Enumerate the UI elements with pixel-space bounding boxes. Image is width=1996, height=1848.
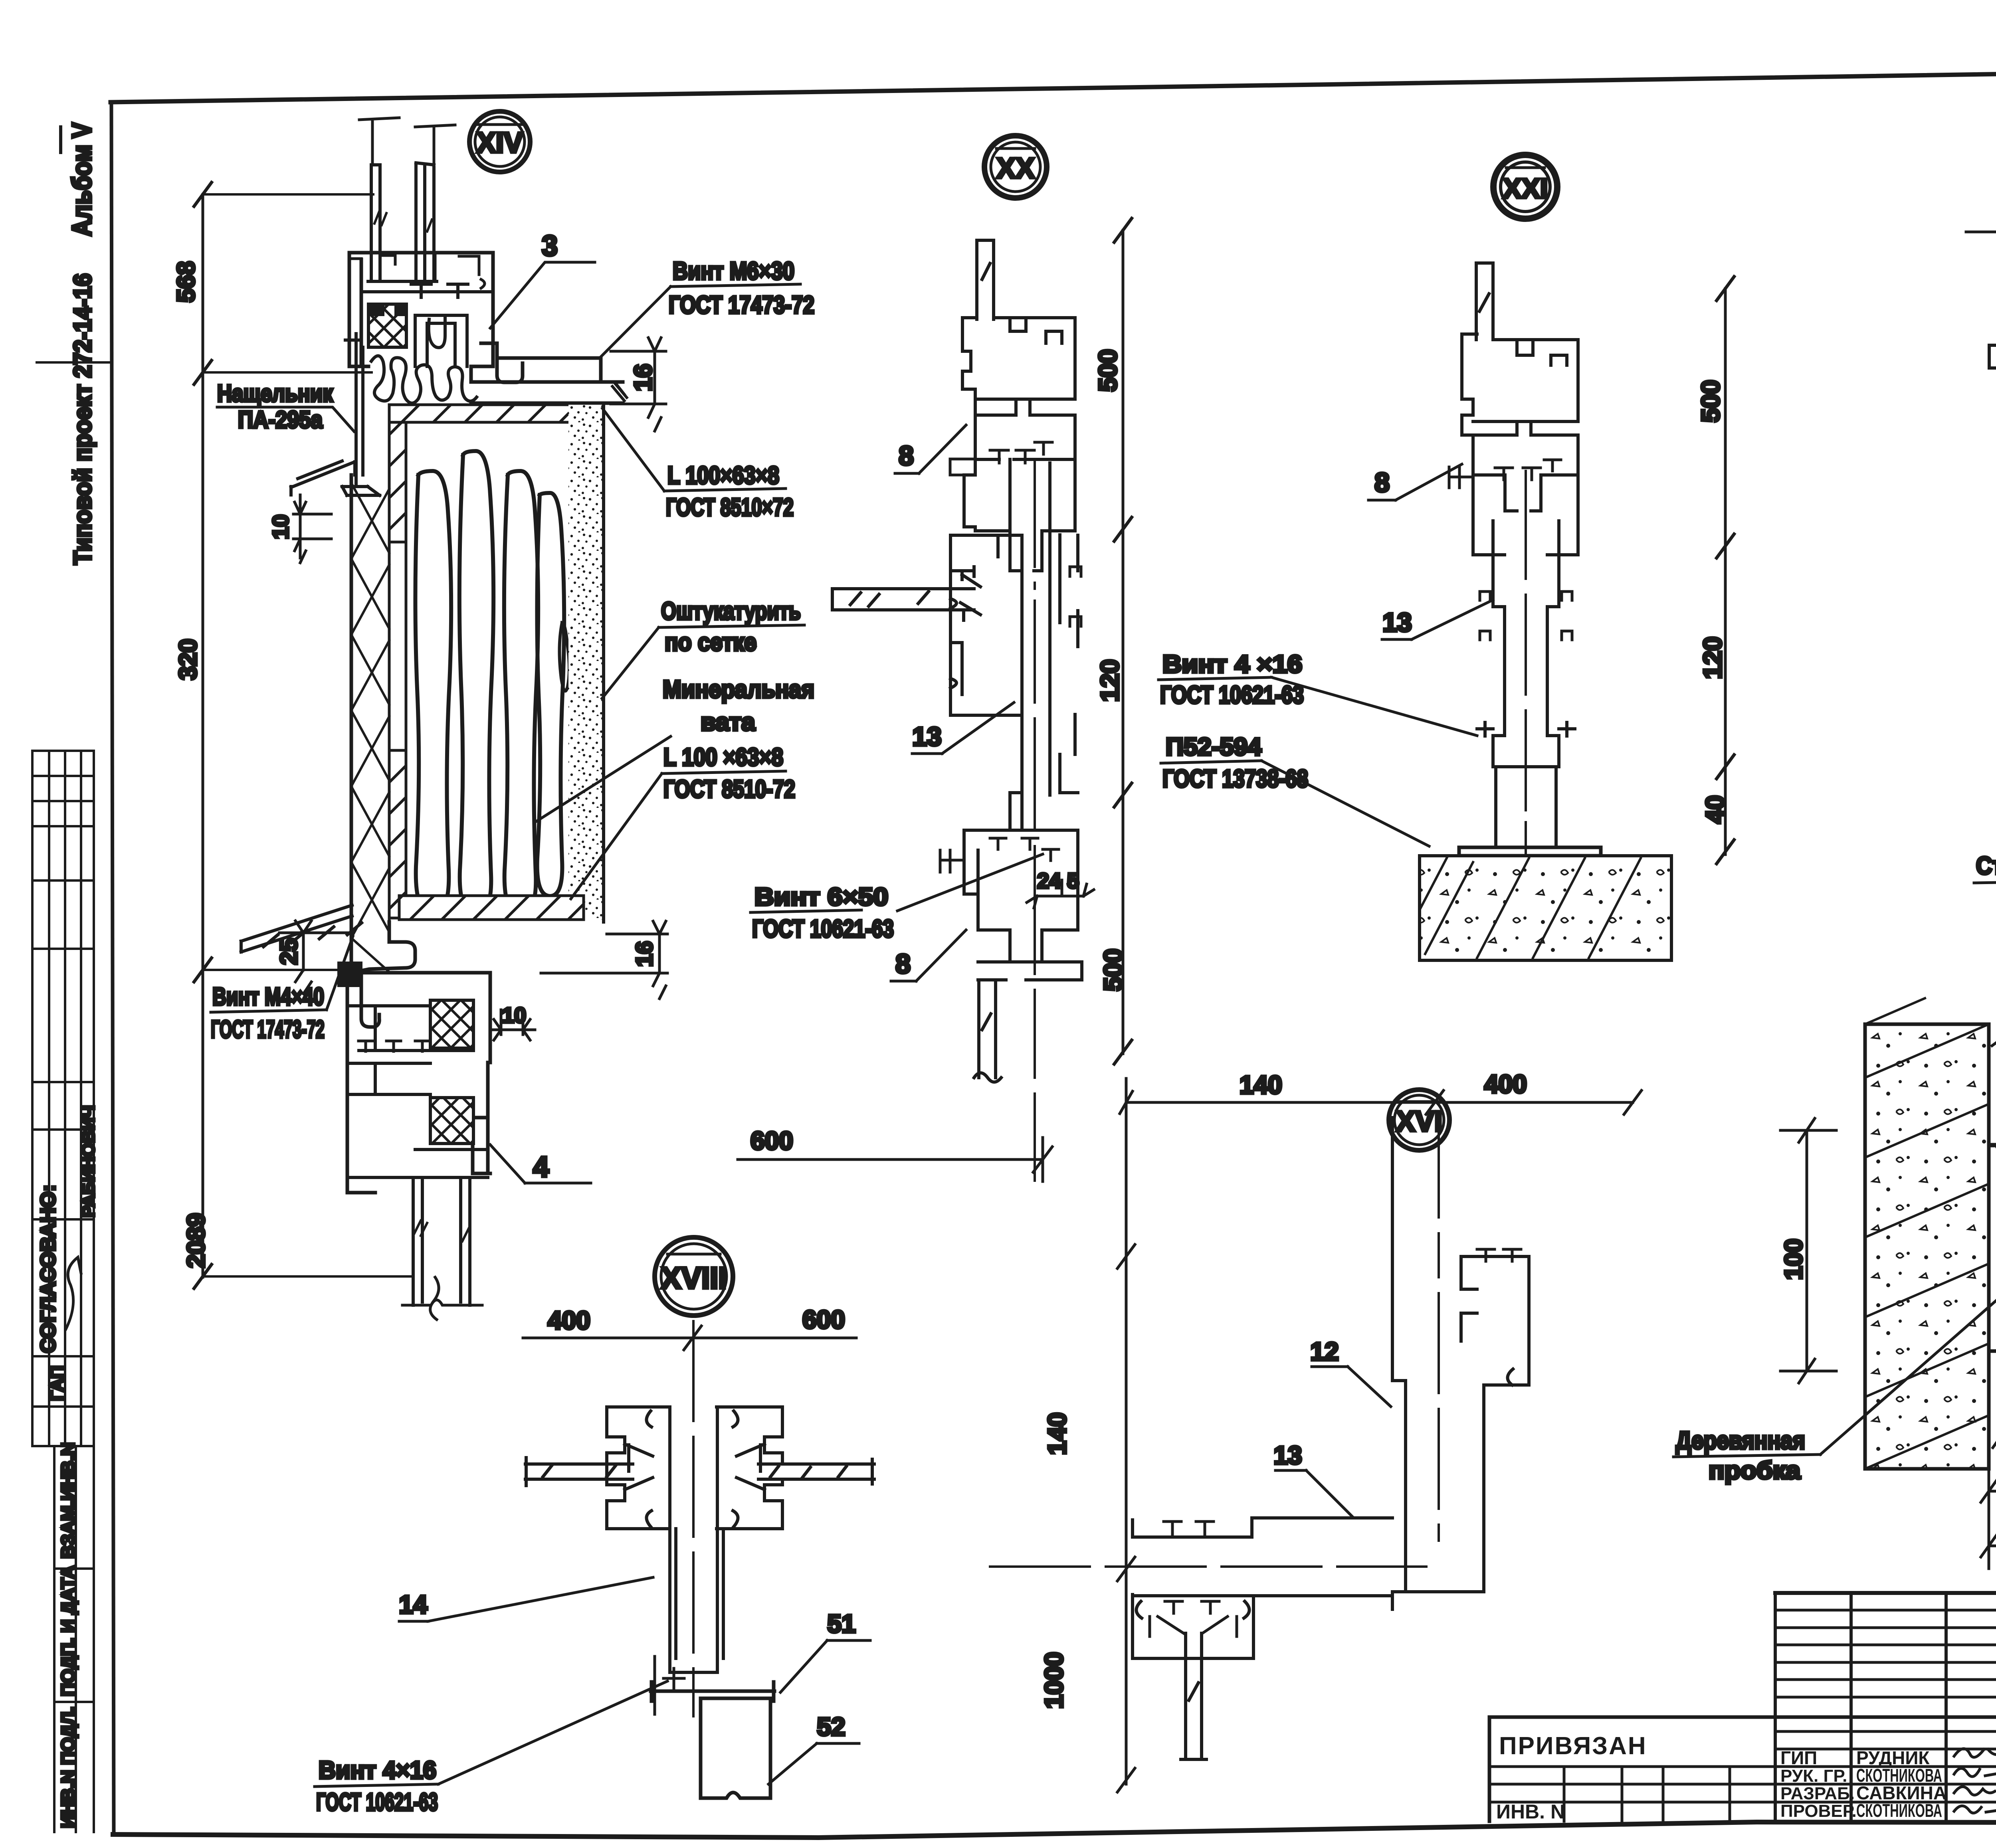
svg-text:L 100×63×8: L 100×63×8 bbox=[667, 462, 779, 489]
dim 16 lower bbox=[541, 921, 667, 999]
centre dashdot vertical bbox=[692, 1321, 695, 1716]
bottom hatched sill strip bbox=[399, 896, 584, 920]
plaster stipple band bbox=[568, 405, 604, 920]
detail XXI bbox=[1158, 155, 1734, 960]
svg-text:РАЗРАБ.: РАЗРАБ. bbox=[1780, 1784, 1855, 1803]
lower channel box bbox=[1133, 1595, 1253, 1658]
detail XX bbox=[738, 136, 1132, 1181]
screws top cluster bbox=[1495, 460, 1561, 480]
lower screws bbox=[358, 1041, 430, 1051]
svg-text:500: 500 bbox=[1099, 949, 1127, 991]
main horizontal profile top edge bbox=[1133, 1518, 1392, 1537]
left tick marks bbox=[950, 459, 975, 475]
svg-text:ГОСТ 17473-72: ГОСТ 17473-72 bbox=[211, 1016, 325, 1043]
screws on top cluster bbox=[990, 442, 1052, 463]
left tick marks bbox=[1449, 467, 1473, 488]
svg-text:10: 10 bbox=[502, 1003, 526, 1027]
svg-text:13: 13 bbox=[912, 722, 941, 751]
svg-text:ГОСТ 17473-72: ГОСТ 17473-72 bbox=[669, 291, 814, 319]
dim 100 vertical left bbox=[1780, 1118, 1836, 1383]
wall right edge bbox=[602, 403, 605, 922]
dim ticks bbox=[1114, 218, 1132, 1064]
svg-text:400: 400 bbox=[1484, 1070, 1527, 1098]
svg-text:Альбом V: Альбом V bbox=[67, 123, 97, 236]
dim line main vertical bbox=[202, 194, 204, 1277]
privyazan verticals bbox=[1564, 1767, 1730, 1821]
screws at mullion base bbox=[1477, 722, 1575, 736]
svg-text:500: 500 bbox=[1093, 349, 1122, 392]
svg-text:600: 600 bbox=[802, 1305, 845, 1334]
wall box: lower hatched angle bbox=[389, 750, 406, 918]
dim ticks bbox=[194, 182, 212, 1288]
dim 16 right bbox=[611, 338, 666, 431]
svg-text:вата: вата bbox=[701, 708, 755, 736]
svg-text:ГОСТ 8510×72: ГОСТ 8510×72 bbox=[666, 494, 794, 521]
screw T marks bbox=[411, 284, 468, 297]
inner frame lines bbox=[361, 292, 493, 366]
left ticks bottom bbox=[940, 850, 964, 872]
top glass sliver bbox=[977, 240, 994, 319]
lower glazing bbox=[413, 1177, 470, 1305]
svg-text:ГОСТ 10621-63: ГОСТ 10621-63 bbox=[752, 915, 894, 943]
svg-text:Оштукатурить: Оштукатурить bbox=[661, 598, 801, 625]
crosshatch block 2 bbox=[430, 1098, 473, 1144]
black corner piece bbox=[339, 963, 361, 986]
svg-text:8: 8 bbox=[1374, 467, 1390, 498]
pedestal bbox=[1496, 767, 1556, 847]
glass bar clips bbox=[960, 572, 980, 620]
svg-text:Винт 6×50: Винт 6×50 bbox=[754, 883, 888, 911]
svg-text:25: 25 bbox=[275, 938, 302, 965]
glass sliver top bbox=[1476, 263, 1493, 340]
svg-text:XX: XX bbox=[996, 152, 1035, 184]
svg-text:600: 600 bbox=[750, 1126, 793, 1155]
privyazan table outline bbox=[1489, 1717, 1996, 1821]
svg-text:12: 12 bbox=[1310, 1337, 1339, 1366]
top frame profile cluster bbox=[962, 318, 1075, 459]
dim 600 bottom bbox=[738, 1138, 1052, 1181]
dim line horizontal bbox=[523, 1326, 856, 1350]
right glass bar bbox=[758, 1459, 874, 1484]
svg-text:ГОСТ 8510-72: ГОСТ 8510-72 bbox=[663, 776, 795, 803]
svg-text:10: 10 bbox=[268, 514, 293, 539]
wall top edge lines bbox=[1989, 1024, 1996, 1469]
dim vertical right bbox=[1724, 289, 1727, 855]
outer sloped sill bbox=[241, 905, 362, 952]
bottom glass sliver bbox=[974, 980, 1001, 1082]
bottom screws bbox=[655, 1656, 684, 1714]
svg-text:ПА-295а: ПА-295а bbox=[238, 406, 323, 433]
mullion right tabs bbox=[1562, 592, 1572, 640]
svg-text:ПОДП. И ДАТА: ПОДП. И ДАТА bbox=[57, 1565, 78, 1696]
wall outer left edge bbox=[350, 475, 353, 972]
svg-text:XIV: XIV bbox=[477, 127, 523, 159]
svg-text:Винт М6×30: Винт М6×30 bbox=[673, 257, 794, 285]
svg-text:L 100 ×63×8: L 100 ×63×8 bbox=[663, 744, 783, 771]
svg-text:8: 8 bbox=[899, 441, 914, 471]
svg-text:РАБИНОВИЧ: РАБИНОВИЧ bbox=[79, 1105, 98, 1217]
svg-text:320: 320 bbox=[174, 639, 202, 680]
svg-text:ГИП: ГИП bbox=[1780, 1747, 1817, 1768]
node circle XVIII bbox=[655, 1237, 733, 1316]
svg-text:500: 500 bbox=[1696, 380, 1725, 423]
concrete base hatched bbox=[1420, 856, 1671, 960]
mid transom: left frame block bbox=[950, 535, 1022, 643]
svg-text:100: 100 bbox=[1780, 1239, 1808, 1280]
svg-text:140: 140 bbox=[1240, 1070, 1282, 1099]
svg-text:Типовой проект 272-14-16: Типовой проект 272-14-16 bbox=[69, 273, 97, 565]
crosshatch block 1 bbox=[430, 1000, 473, 1048]
privyazan rows bbox=[1489, 1767, 1996, 1802]
dim 10 lower bbox=[490, 1010, 535, 1040]
left block inner curls bbox=[625, 1411, 653, 1527]
title block bbox=[1489, 1593, 1996, 1840]
lower half of top cluster bbox=[964, 459, 1075, 571]
svg-text:16: 16 bbox=[630, 364, 657, 392]
svg-text:Винт 4 ×16: Винт 4 ×16 bbox=[1162, 651, 1302, 678]
seal crosshatch block bbox=[368, 304, 406, 347]
svg-text:ВЗАМ.ИНВ.N: ВЗАМ.ИНВ.N bbox=[57, 1442, 78, 1559]
channel screws bbox=[1165, 1601, 1219, 1613]
overline on V of Альбом bbox=[59, 127, 62, 152]
svg-text:XVI: XVI bbox=[1396, 1106, 1442, 1138]
left small grid verticals bbox=[1775, 1593, 1996, 1821]
svg-text:52: 52 bbox=[817, 1712, 845, 1741]
centre dashdot of mullion bbox=[1438, 1118, 1440, 1541]
mullion 12 verticals bbox=[1392, 1118, 1484, 1609]
detail XIV bbox=[172, 111, 814, 1320]
svg-text:РУК. ГР.: РУК. ГР. bbox=[1780, 1766, 1847, 1786]
rail flange lines to wall bbox=[1989, 1145, 1996, 1351]
top frame small details bbox=[349, 253, 485, 288]
svg-text:13: 13 bbox=[1273, 1441, 1302, 1470]
left border line bbox=[111, 102, 114, 1834]
svg-text:XVIII: XVIII bbox=[661, 1261, 727, 1295]
gasket upper curl bbox=[429, 317, 445, 348]
mullion center dashdot bbox=[1525, 471, 1527, 853]
centre dashdot horizontal bbox=[990, 1565, 1426, 1568]
wall left sloped flashing bbox=[291, 461, 355, 495]
svg-text:120: 120 bbox=[1095, 659, 1124, 702]
nashchelnik drip profile bbox=[471, 358, 623, 403]
svg-text:568: 568 bbox=[172, 261, 200, 302]
detail XVI bbox=[990, 1070, 1642, 1792]
top border line bbox=[111, 65, 1996, 102]
svg-text:ИНВ. N: ИНВ. N bbox=[1496, 1801, 1565, 1823]
svg-text:Стекло δ 6.5: Стекло δ 6.5 bbox=[1976, 852, 1996, 880]
T screws on top bbox=[1164, 1522, 1214, 1537]
svg-text:51: 51 bbox=[827, 1609, 855, 1638]
dim vertical bbox=[1117, 1102, 1135, 1792]
svg-text:Деревянная: Деревянная bbox=[1676, 1427, 1805, 1454]
node circle XIV bbox=[469, 111, 530, 172]
dim 10 upper bbox=[293, 495, 331, 563]
detail XVIII bbox=[315, 1237, 874, 1816]
glazing unit top bbox=[368, 163, 437, 281]
dim line horizontal bbox=[1120, 1078, 1642, 1114]
svg-text:16: 16 bbox=[632, 941, 657, 967]
small wool blob right bbox=[559, 623, 569, 691]
mineral wool blobs bbox=[415, 471, 451, 914]
wall box inner left edge bbox=[389, 422, 406, 922]
dim vertical right bbox=[1122, 230, 1125, 1054]
left margin rotated captions bbox=[32, 123, 98, 1832]
svg-text:Минеральная: Минеральная bbox=[663, 676, 814, 703]
svg-text:по сетке: по сетке bbox=[665, 629, 756, 656]
small grid rows bbox=[1775, 1610, 1996, 1749]
black corner mark bbox=[368, 304, 384, 316]
box 52 bbox=[701, 1698, 770, 1798]
svg-text:ПРИВЯЗАН: ПРИВЯЗАН bbox=[1499, 1732, 1647, 1760]
dim 80 bbox=[1993, 1405, 1996, 1461]
clamp bar 51 bbox=[651, 1682, 774, 1701]
dim 25 bbox=[279, 921, 351, 994]
svg-text:СОГЛАСОВАНО:: СОГЛАСОВАНО: bbox=[37, 1185, 60, 1353]
glass bar horizontal bbox=[832, 589, 974, 610]
svg-text:ГОСТ 13738-68: ГОСТ 13738-68 bbox=[1162, 765, 1308, 793]
stamp table upper (Согласовано) bbox=[32, 751, 94, 1446]
central mullion verticals bbox=[1010, 459, 1078, 795]
svg-text:ИНВ.N ПОДЛ.: ИНВ.N ПОДЛ. bbox=[57, 1707, 78, 1828]
svg-text:3: 3 bbox=[542, 230, 558, 262]
svg-text:ГОСТ 10621-63: ГОСТ 10621-63 bbox=[1160, 681, 1304, 709]
svg-text:Нащельник: Нащельник bbox=[217, 380, 333, 407]
svg-text:8: 8 bbox=[895, 949, 911, 979]
label 4 leader bbox=[490, 1145, 591, 1183]
svg-text:24 5: 24 5 bbox=[1037, 869, 1079, 893]
dim 24.5 bbox=[1027, 880, 1094, 908]
svg-text:ПРОВЕР.: ПРОВЕР. bbox=[1780, 1801, 1857, 1821]
svg-text:120: 120 bbox=[1698, 637, 1727, 679]
svg-text:П52-594: П52-594 bbox=[1166, 733, 1262, 761]
nashchelnik lower Z profile bbox=[361, 922, 415, 1027]
svg-text:СКОТНИКОВА: СКОТНИКОВА bbox=[1856, 1800, 1942, 1821]
second horizontal bbox=[1133, 1594, 1392, 1597]
wavy gasket bbox=[371, 356, 477, 403]
svg-text:4: 4 bbox=[533, 1151, 549, 1183]
svg-text:40: 40 bbox=[1701, 795, 1729, 823]
concrete wall hatched bbox=[1865, 1024, 1989, 1469]
mullion body bbox=[1493, 555, 1559, 767]
glass bar left bbox=[1989, 345, 1996, 368]
node circle XXI bbox=[1493, 155, 1557, 219]
svg-text:1000: 1000 bbox=[1040, 1652, 1068, 1709]
svg-text:2089: 2089 bbox=[182, 1213, 210, 1268]
channel inner trapezoids bbox=[1150, 1617, 1237, 1636]
svg-text:Винт М4×40: Винт М4×40 bbox=[212, 983, 324, 1011]
bottom border line bbox=[113, 1822, 1996, 1838]
right tabs on mullion bbox=[1070, 567, 1081, 626]
stamp table lower bbox=[54, 1446, 94, 1832]
signatures script bbox=[1954, 1749, 1996, 1757]
screw on sill bbox=[612, 383, 627, 401]
stamp signature bbox=[66, 1257, 81, 1329]
detail XIX bbox=[1966, 147, 1996, 883]
mid transom body bbox=[950, 643, 1022, 715]
svg-text:ГАП: ГАП bbox=[46, 1365, 67, 1401]
mullion left tabs bbox=[1480, 592, 1490, 640]
right block inner curls bbox=[733, 1411, 764, 1527]
wall box: top hatched strip bbox=[389, 405, 571, 422]
dim 40 bbox=[1981, 1469, 1996, 1513]
strip top screw bbox=[345, 334, 361, 347]
lower window frame box bbox=[347, 973, 490, 1193]
nashchelnik vertical strip bbox=[342, 334, 380, 495]
top C-clip piece bbox=[1461, 1256, 1529, 1385]
detail XXII bbox=[1673, 945, 1996, 1569]
top frame cluster bbox=[1462, 334, 1578, 435]
title block outline top bbox=[1775, 1591, 1996, 1595]
centre mullion verticals bbox=[670, 1407, 723, 1672]
glass centre bbox=[1181, 1633, 1206, 1759]
bottom cluster bbox=[964, 830, 1082, 980]
dim extension lines bbox=[203, 194, 410, 1276]
svg-text:Винт 4×16: Винт 4×16 bbox=[319, 1757, 436, 1784]
dim 600 top bbox=[1966, 212, 1996, 255]
label 3 leader bbox=[490, 262, 595, 328]
svg-text:14: 14 bbox=[399, 1590, 428, 1619]
left glass stub bbox=[525, 1458, 633, 1486]
svg-text:пробка: пробка bbox=[1709, 1457, 1801, 1484]
mullion lower body bbox=[1010, 714, 1078, 830]
svg-text:140: 140 bbox=[1043, 1413, 1071, 1455]
lower frame inner lines bbox=[347, 1006, 488, 1177]
svg-text:ГОСТ 10621-63: ГОСТ 10621-63 bbox=[316, 1789, 438, 1816]
base plate bbox=[1459, 847, 1601, 856]
clip screws bbox=[1477, 1249, 1521, 1261]
right C-block bbox=[717, 1407, 782, 1529]
timber cross hatches bbox=[351, 483, 389, 972]
node circle XVI bbox=[1389, 1090, 1449, 1150]
top frame assembly outline bbox=[349, 253, 601, 382]
fold mark left margin bbox=[37, 361, 111, 364]
node circle XX bbox=[984, 136, 1047, 198]
bottom cluster screws bbox=[990, 838, 1059, 861]
svg-text:13: 13 bbox=[1382, 607, 1412, 637]
lower glazing continues with wavy cut bbox=[430, 1277, 439, 1320]
wall box: left hatched angle leg bbox=[389, 422, 406, 542]
dim 100 and 1768 bbox=[1981, 1469, 1996, 1569]
mullion centre dashdot bbox=[1034, 459, 1036, 1181]
svg-text:400: 400 bbox=[548, 1306, 590, 1335]
glazing break squiggle bbox=[402, 1300, 482, 1305]
left C-block bbox=[607, 1407, 669, 1529]
svg-text:XXI: XXI bbox=[1503, 173, 1548, 204]
